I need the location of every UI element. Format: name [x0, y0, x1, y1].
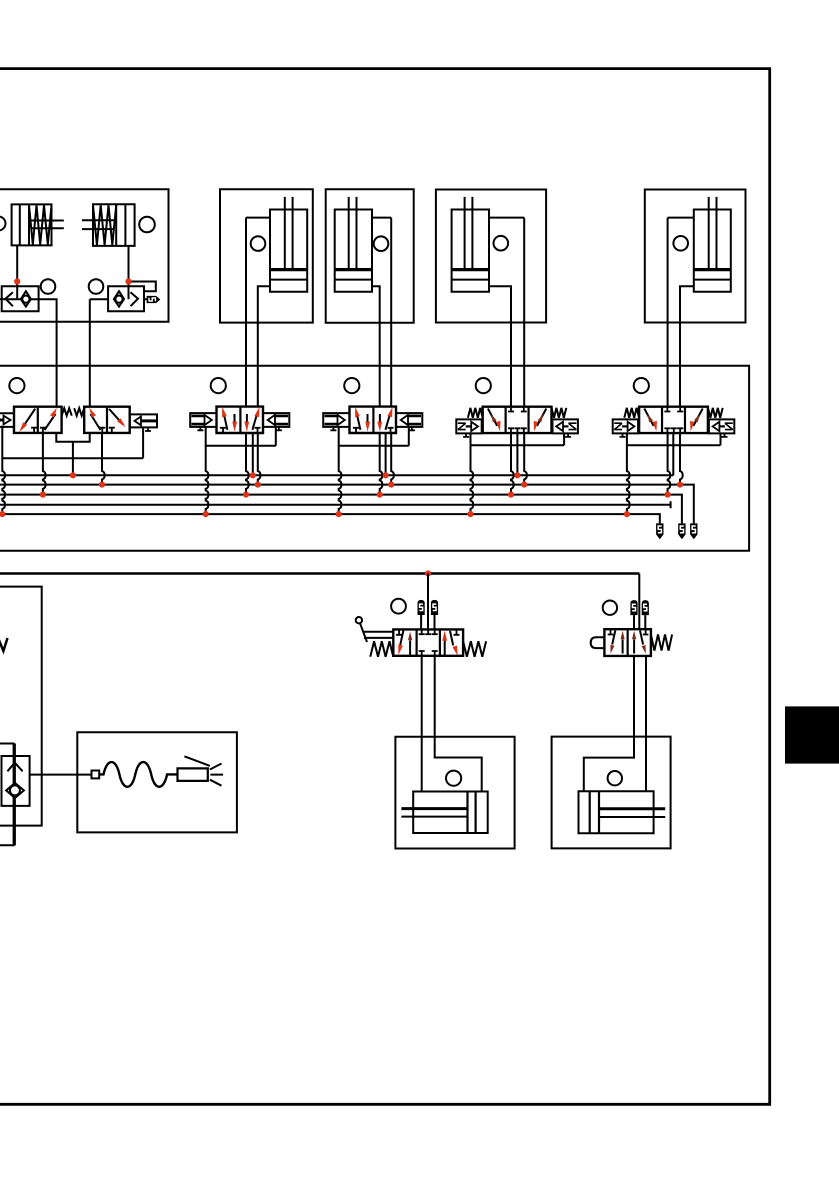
V3 flow paths right square	[379, 414, 381, 422]
V5 center blocked ports	[664, 407, 683, 412]
junction dot	[0, 511, 5, 517]
V5 return spring right	[708, 408, 723, 418]
valve VB body	[604, 629, 651, 656]
valve V5 body	[639, 407, 708, 433]
wire VB to cylinder B port 2	[645, 656, 647, 791]
valve V4 left pilot	[456, 419, 481, 433]
wire cyl2 to flow valve	[128, 246, 130, 299]
wire cylinder 3 port A down	[523, 218, 525, 407]
V1 centering springs	[62, 408, 72, 416]
valve V2 left pilot	[190, 413, 216, 427]
circle marker left (cut)	[0, 217, 6, 231]
valve V4 body	[483, 407, 552, 433]
enclosure box blow gun	[77, 732, 237, 832]
valve V1 body right	[84, 407, 130, 433]
valve VA body	[393, 629, 463, 655]
blow gun trigger	[184, 756, 210, 766]
circle marker V3	[344, 378, 359, 393]
V5 return spring left	[624, 408, 639, 418]
wire V4 port wire to bus 3	[511, 433, 514, 495]
wire VA to cylinder A port 1	[421, 656, 423, 792]
valve V2 right pilot	[263, 413, 289, 427]
wire cylinder 4 port A down	[667, 218, 669, 407]
wire cylinder 2 port B down	[372, 286, 380, 407]
valve V2 body	[217, 407, 264, 433]
V4 flow path left square	[488, 409, 497, 426]
cylinder cylinder 3 barrel	[452, 210, 489, 292]
wire V2 port wire to bus 3	[246, 433, 249, 495]
VB exhaust silencer right	[642, 600, 649, 615]
wire V4 port wire to bus 1	[516, 433, 518, 475]
V4 center blocked ports	[508, 407, 527, 412]
cylinder B rod	[599, 807, 665, 810]
valve V3 body	[350, 407, 397, 433]
one-way flow control valve 2	[108, 286, 144, 311]
wire flow valve 2 down to valve V1	[89, 299, 91, 407]
wire cylinder 2 port A down	[390, 218, 392, 407]
junction dot	[40, 492, 46, 498]
blow gun body	[178, 768, 208, 781]
wire V2 port wire to bus 2	[258, 433, 261, 485]
wire cyl1 to flow valve	[16, 245, 18, 299]
quick coupling square	[92, 771, 100, 779]
cylinder cylinder 1 piston rod	[285, 197, 293, 269]
V2 flow paths left square	[224, 413, 228, 430]
wire V1 right pilot wire	[142, 427, 144, 458]
wire supply to blow gun	[29, 774, 91, 776]
circle marker VB	[603, 601, 617, 615]
circle marker	[251, 236, 266, 251]
V5 right pilot wire	[720, 433, 722, 445]
check valve unit	[2, 756, 30, 806]
wire V5 left pilot wire to bus 5	[627, 433, 630, 514]
cylinder cylinder 3 piston	[452, 268, 489, 271]
junction dot	[521, 482, 527, 488]
cylinder cylinder 2 piston	[335, 268, 372, 271]
V3 flow paths left square	[357, 413, 361, 430]
wire cylinder 1 port B down	[258, 286, 270, 407]
black thumb tab	[785, 706, 839, 763]
VB flow path left square	[612, 631, 615, 645]
bus line 2	[0, 485, 694, 524]
wire cylinder 1 port A down	[245, 218, 247, 407]
circle marker	[41, 279, 56, 294]
junction dot supply	[425, 570, 431, 576]
V4 right pilot wire	[563, 433, 565, 445]
enclosure box cylinder 2	[326, 189, 414, 322]
cylinder cylinder 2 barrel	[335, 210, 372, 292]
junction dot	[383, 472, 389, 478]
V4 pilot interconnect line	[471, 444, 565, 446]
cylinder B barrel	[579, 791, 654, 833]
bus silencer 3	[690, 523, 697, 539]
VA exhaust silencer right	[431, 600, 438, 615]
junction dot	[508, 492, 514, 498]
wire V5 port wire to bus 3	[668, 433, 671, 495]
valve V4 right pilot	[553, 419, 578, 433]
enclosure box upper-left	[0, 189, 169, 322]
valve V3 left pilot	[323, 413, 349, 427]
junction dot	[243, 492, 249, 498]
wire cylinder 3 port B down	[489, 286, 511, 407]
wire V2 left pilot wire to bus 5	[206, 427, 209, 514]
enclosure box cylinder 4	[645, 190, 746, 323]
circle marker	[494, 236, 509, 251]
circle marker V2	[211, 378, 226, 393]
cylinder cylinder 4 piston rod	[709, 197, 717, 269]
junction dot	[255, 482, 261, 488]
wire V1 port wire to bus 2	[102, 433, 105, 485]
cylinder A piston	[468, 792, 476, 834]
cylinder B piston	[590, 791, 599, 833]
wire supply to valve VB	[638, 574, 640, 630]
sensor flag plate	[668, 217, 694, 219]
hose coil	[99, 762, 177, 787]
valve V5 right pilot	[709, 419, 734, 433]
bus line 1	[0, 474, 673, 476]
wire V1 left pilot wire to bus 5	[2, 427, 5, 514]
V3 pilot interconnect line	[339, 445, 409, 447]
sensor flag plate	[372, 217, 391, 219]
junction dot	[250, 472, 256, 478]
V4 return spring right	[552, 408, 567, 418]
cylinder cylinder 4 piston	[694, 268, 731, 271]
valve V1 left pilot	[0, 413, 14, 427]
circle marker	[374, 236, 389, 251]
V1 pilot interconnect line	[2, 457, 143, 459]
VA exhaust silencer left	[418, 600, 425, 615]
wire V3 port wire to bus 3	[380, 433, 383, 495]
cylinder A rod	[401, 807, 467, 810]
circle marker cyl B	[608, 771, 622, 785]
sensor flag plate	[489, 217, 524, 219]
VA center ports	[419, 629, 438, 634]
circle marker	[673, 236, 688, 251]
spring-return cylinder 2	[93, 204, 135, 246]
wire supply to valve VA	[427, 574, 429, 630]
V5 flow path right square	[693, 409, 702, 426]
wire flow valve 1 output down to valve V1	[39, 299, 57, 407]
enclosure tall box air supply	[0, 587, 42, 826]
junction dot	[203, 511, 209, 517]
bus line 4	[0, 501, 671, 508]
V1 flow path square1	[22, 409, 36, 429]
circle marker V4	[476, 378, 491, 393]
junction dot	[99, 482, 105, 488]
VB push button	[591, 637, 605, 648]
junction dot	[388, 482, 394, 488]
enclosure partial box	[0, 744, 14, 846]
circle marker VA	[391, 599, 406, 614]
VA flow path right square	[444, 641, 446, 655]
cylinder cylinder 4 barrel	[694, 210, 731, 292]
V1 pilot vent stub	[145, 427, 151, 431]
cylinder A barrel	[413, 792, 488, 834]
circle marker right	[139, 217, 155, 233]
exhaust silencer small	[144, 298, 147, 300]
cylinder cylinder 1 piston	[270, 268, 307, 271]
VA spring right	[463, 641, 486, 657]
wire V4 left pilot wire to bus 5	[471, 433, 474, 514]
page frame border	[0, 69, 770, 1105]
wire V2 port wire to bus 1	[252, 433, 254, 475]
blow gun jet	[210, 764, 223, 786]
valve V5 left pilot	[613, 419, 638, 433]
junction dot	[377, 492, 383, 498]
wire V5 port wire to bus 2	[680, 433, 683, 485]
circle marker V1	[9, 378, 24, 393]
V1 blocked ports	[31, 428, 46, 433]
junction dot	[467, 511, 473, 517]
V2 right pilot wire	[275, 427, 277, 446]
V1 blocked ports right	[99, 428, 115, 433]
enclosure box cylinder 3	[436, 190, 546, 323]
V5 flow path left square	[644, 409, 653, 426]
bus line 5	[0, 514, 660, 523]
V1 sub-base	[56, 433, 89, 442]
valve V1 body left	[14, 407, 62, 433]
wire V3 left pilot wire to bus 5	[339, 427, 342, 514]
junction dot	[514, 472, 520, 478]
V1 flow path square2	[45, 414, 56, 430]
wire V3 port wire to bus 1	[385, 433, 387, 475]
bus line 3	[0, 495, 682, 524]
bus silencer 2	[678, 523, 685, 539]
V3 blocked port stubs	[353, 428, 359, 433]
enclosure box cylinder A	[395, 737, 514, 849]
wire V4 port wire to bus 2	[524, 433, 527, 485]
VB flow path right square	[633, 640, 635, 654]
V2 blocked port stubs	[220, 428, 226, 433]
valve V3 right pilot	[396, 413, 422, 427]
cylinder cylinder 1 barrel	[270, 210, 307, 292]
enclosure box cylinder B	[552, 737, 671, 849]
wire elbow to valve side port	[129, 282, 156, 292]
spring-return cylinder 1	[12, 204, 52, 245]
V1 flow path square4	[109, 409, 123, 425]
V3 right pilot wire	[408, 427, 410, 446]
one-way flow control valve 1	[0, 298, 39, 300]
enclosure box valve manifold	[0, 366, 749, 551]
enclosure box cylinder 1	[220, 189, 313, 322]
V4 return spring left	[468, 408, 483, 418]
junction dot	[336, 511, 342, 517]
VA flow path left square	[400, 631, 403, 646]
wire V3 port wire to bus 2	[391, 433, 394, 485]
circle marker cyl A	[446, 771, 461, 786]
junction dot	[125, 278, 131, 284]
V5 pilot interconnect line	[627, 444, 721, 446]
VB spring right	[651, 635, 672, 651]
wire V1 supply wire to bus 1	[72, 442, 74, 476]
sensor flag plate	[246, 217, 270, 219]
circle marker V5	[634, 378, 649, 393]
V1 flow path square3	[91, 414, 101, 430]
supply line to hand valves	[0, 572, 639, 575]
wire cylinder 4 port B down	[680, 286, 694, 407]
bus silencer 1	[656, 523, 663, 539]
wire V1 port wire to bus 3	[43, 433, 46, 495]
wire V5 port wire to bus 1	[672, 433, 674, 475]
junction dot	[624, 511, 630, 517]
circle marker	[89, 279, 104, 294]
wire VA to cylinder A port 2	[435, 656, 482, 792]
junction dot	[70, 472, 76, 478]
wire VB to cylinder B port 1	[584, 656, 634, 791]
cylinder cylinder 3 piston rod	[465, 197, 473, 269]
label W	[0, 638, 8, 651]
V2 pilot interconnect line	[206, 445, 276, 447]
junction dot	[14, 278, 20, 284]
valve V1 right pilot	[130, 414, 157, 427]
VA lever	[356, 617, 362, 623]
cylinder cylinder 2 piston rod	[349, 197, 357, 269]
VB exhaust silencer left	[630, 600, 637, 615]
junction dot	[677, 482, 683, 488]
junction dot	[665, 492, 671, 498]
V4 flow path right square	[537, 409, 546, 426]
V2 flow paths right square	[246, 414, 248, 422]
VA spring left	[370, 641, 393, 657]
